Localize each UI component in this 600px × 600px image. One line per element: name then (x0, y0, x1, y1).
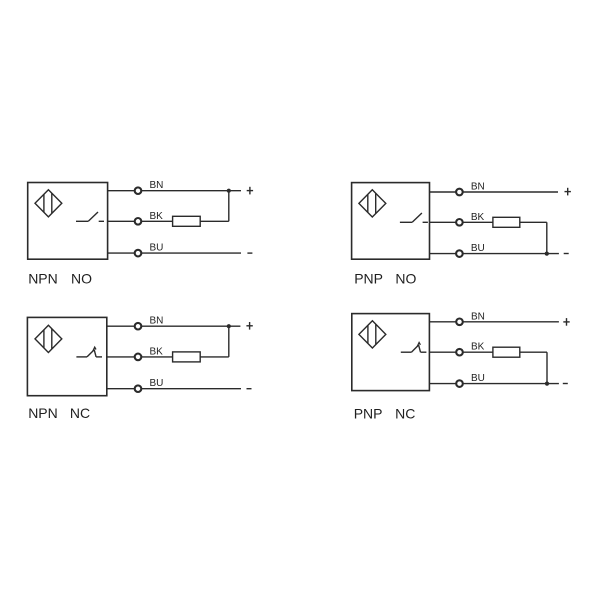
svg-text:NO: NO (71, 270, 92, 286)
svg-text:BK: BK (471, 342, 485, 353)
svg-text:NPN: NPN (28, 405, 58, 421)
svg-text:PNP: PNP (354, 405, 383, 421)
svg-text:BU: BU (150, 378, 164, 389)
svg-text:BN: BN (150, 180, 164, 191)
svg-text:BK: BK (471, 212, 485, 223)
svg-text:BN: BN (150, 316, 164, 327)
svg-text:PNP: PNP (354, 270, 383, 286)
svg-text:BN: BN (471, 182, 485, 193)
svg-text:BU: BU (471, 373, 485, 384)
svg-text:BN: BN (471, 311, 485, 322)
svg-text:BK: BK (150, 346, 164, 357)
svg-text:BU: BU (471, 243, 485, 254)
svg-text:NC: NC (70, 405, 90, 421)
svg-text:BK: BK (150, 211, 164, 222)
svg-text:BU: BU (150, 243, 164, 254)
svg-text:NC: NC (395, 405, 415, 421)
svg-text:NO: NO (395, 270, 416, 286)
svg-text:NPN: NPN (28, 270, 58, 286)
